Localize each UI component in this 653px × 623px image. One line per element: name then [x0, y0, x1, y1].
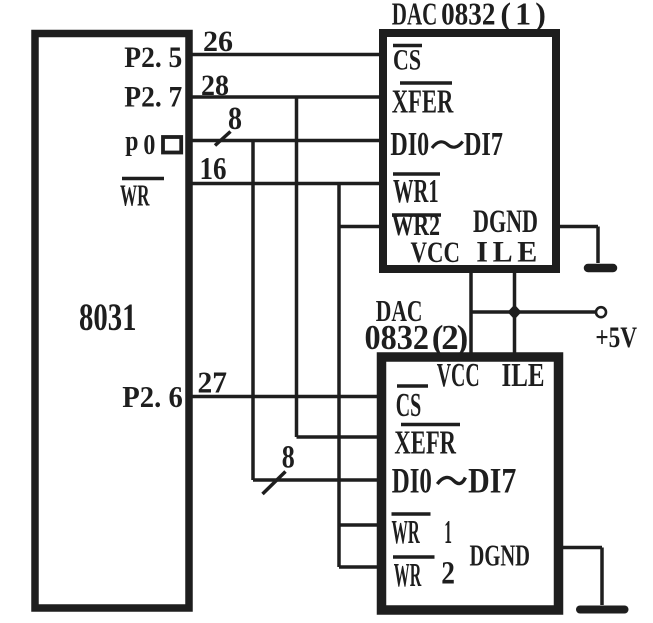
- svg-text:DI0: DI0: [390, 126, 429, 163]
- svg-text:0832: 0832: [441, 0, 495, 32]
- svg-text:0832: 0832: [365, 318, 430, 357]
- svg-text:DI0: DI0: [392, 461, 432, 501]
- svg-text:1: 1: [444, 514, 452, 551]
- svg-text:8: 8: [282, 440, 295, 476]
- svg-text:8031: 8031: [79, 296, 137, 339]
- svg-text:VCC: VCC: [437, 357, 480, 394]
- svg-text:27: 27: [198, 365, 228, 400]
- svg-text:ILE: ILE: [476, 236, 537, 269]
- svg-text:WR: WR: [394, 557, 422, 594]
- svg-text:P2. 7: P2. 7: [124, 81, 182, 114]
- svg-text:WR: WR: [120, 178, 150, 213]
- svg-text:WR1: WR1: [393, 173, 439, 210]
- svg-text:DAC: DAC: [392, 0, 438, 32]
- svg-text:VCC: VCC: [411, 236, 461, 269]
- svg-text:DI7: DI7: [468, 461, 516, 501]
- svg-text:(1): (1): [500, 0, 546, 32]
- svg-text:+5V: +5V: [595, 321, 637, 354]
- svg-text:p: p: [125, 125, 138, 157]
- svg-text:XEFR: XEFR: [394, 425, 456, 462]
- svg-text:DI7: DI7: [464, 126, 503, 163]
- svg-text:XFER: XFER: [392, 84, 454, 121]
- svg-text:ILE: ILE: [502, 357, 545, 394]
- svg-text:28: 28: [201, 69, 229, 102]
- svg-text:CS: CS: [396, 387, 422, 424]
- svg-text:2: 2: [441, 556, 455, 592]
- svg-text:CS: CS: [393, 44, 421, 77]
- svg-text:8: 8: [228, 101, 242, 137]
- svg-text:P2. 6: P2. 6: [122, 379, 183, 414]
- svg-text:DGND: DGND: [470, 538, 531, 573]
- svg-text:(2): (2): [432, 318, 469, 357]
- svg-text:0: 0: [143, 129, 155, 161]
- svg-text:26: 26: [203, 25, 233, 58]
- svg-text:16: 16: [200, 150, 227, 186]
- svg-text:P2. 5: P2. 5: [124, 41, 182, 74]
- svg-text:WR: WR: [392, 514, 421, 551]
